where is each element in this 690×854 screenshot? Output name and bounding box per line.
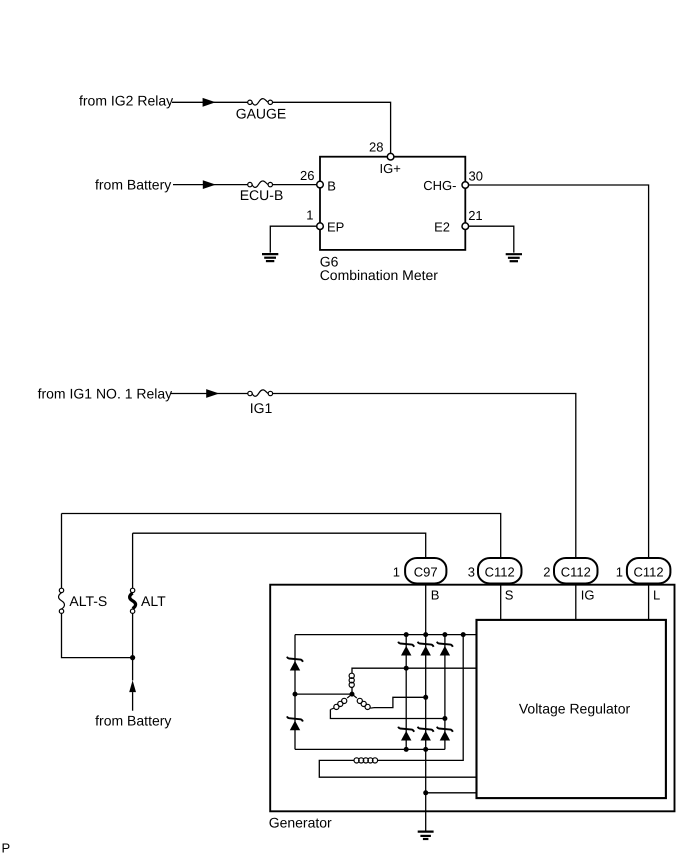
voltage regulator box U2 — [477, 620, 666, 798]
fuse ECU-B — [248, 181, 273, 187]
arrow on IG2 wire — [203, 98, 216, 107]
connector C97 — [405, 558, 446, 584]
pin 30 CHG- circle — [462, 182, 469, 189]
wire top lead of fuse ALT-S — [61, 514, 63, 589]
wire B into generator — [425, 584, 427, 635]
fusible link ALT — [130, 588, 136, 613]
svg-text:Generator: Generator — [269, 815, 332, 831]
diode D1 top row — [398, 642, 414, 656]
svg-text:from IG2 Relay: from IG2 Relay — [79, 93, 173, 109]
wire ALT to connector B C97 — [133, 533, 426, 558]
fuse ALT-S — [59, 588, 65, 613]
rotor field coil — [354, 758, 378, 763]
wire rectifier column 3 — [444, 635, 446, 750]
svg-text:S: S — [505, 587, 514, 602]
svg-text:B: B — [431, 587, 440, 602]
wire left rectifier column — [294, 635, 296, 750]
wire left column to stator center — [295, 693, 352, 695]
svg-text:2: 2 — [543, 564, 550, 579]
pin 26 B circle — [317, 181, 324, 188]
svg-text:21: 21 — [468, 208, 482, 223]
svg-text:GAUGE: GAUGE — [236, 106, 287, 122]
diode D3 top row — [437, 642, 453, 656]
diode D6 bottom row — [437, 727, 453, 741]
junction dot left column — [293, 692, 298, 697]
wire S into voltage regulator — [500, 584, 502, 620]
svg-text:30: 30 — [469, 168, 483, 183]
ground for EP — [262, 254, 278, 261]
junction dot ground line — [423, 790, 428, 795]
arrow on IG1 wire — [206, 389, 219, 398]
svg-text:26: 26 — [300, 168, 314, 183]
svg-text:L: L — [653, 587, 660, 602]
junction dot stator center — [350, 692, 355, 697]
svg-text:1: 1 — [306, 208, 313, 223]
svg-text:from IG1 NO. 1 Relay: from IG1 NO. 1 Relay — [38, 385, 173, 401]
wire GAUGE fuse to pin 28 — [273, 102, 391, 153]
pin 28 circle — [387, 153, 394, 160]
wire IG2 Relay to GAUGE fuse — [172, 101, 248, 103]
svg-text:CHG-: CHG- — [423, 178, 456, 193]
svg-text:IG: IG — [581, 587, 595, 602]
ground for E2 — [506, 254, 522, 261]
wire phase 3 to rectifier column 2 — [374, 697, 426, 707]
svg-text:C112: C112 — [561, 564, 591, 579]
generator box — [270, 585, 674, 812]
junction dot phase1 column1 — [404, 666, 409, 671]
svg-text:E2: E2 — [434, 219, 450, 234]
wire rectifier column 2 B — [425, 635, 427, 832]
wire regulator E to ground line — [426, 792, 477, 794]
svg-text:Voltage Regulator: Voltage Regulator — [519, 700, 631, 716]
junction dots top bus — [404, 632, 409, 637]
wire bottom lead ALT to junction — [132, 613, 134, 657]
svg-text:1: 1 — [393, 564, 400, 579]
svg-text:C97: C97 — [414, 564, 438, 579]
arrow on Battery wire — [203, 180, 216, 189]
diode D2 top row — [418, 642, 434, 656]
wire phase 2 to rectifier column 3 — [330, 710, 445, 719]
stator coil phase 3 lower-right — [352, 694, 374, 709]
svg-text:ALT-S: ALT-S — [69, 593, 107, 609]
wire below battery arrow — [132, 692, 134, 711]
wire phase 1 to regulator — [352, 668, 477, 673]
junction dots bottom bus — [404, 747, 409, 752]
wire rectifier column 1 — [405, 635, 407, 750]
diode D4 bottom row — [398, 727, 414, 741]
combination meter box U1 — [320, 157, 465, 250]
svg-text:ALT: ALT — [141, 593, 166, 609]
stator coil phase 2 lower-left — [330, 694, 352, 709]
wire EP to ground — [270, 226, 316, 252]
diode D7 left column top — [287, 657, 303, 671]
svg-text:28: 28 — [369, 139, 383, 154]
svg-text:IG1: IG1 — [250, 400, 273, 416]
connector C112 S — [478, 558, 522, 584]
fuse GAUGE — [248, 99, 273, 105]
wire bottom bus — [295, 748, 445, 750]
wire coil1 to stator center — [351, 687, 353, 694]
diode D5 bottom row — [418, 727, 434, 741]
wire IG1 Relay to IG1 fuse — [171, 393, 248, 395]
ground for generator — [418, 832, 434, 839]
wire Battery to ECU-B fuse — [173, 184, 248, 186]
wire top bus B+ — [295, 634, 477, 636]
svg-text:3: 3 — [468, 564, 475, 579]
wire field from top bus down — [378, 635, 464, 761]
wire IG1 fuse to connector IG C112 — [273, 394, 576, 559]
wire IG into voltage regulator — [575, 584, 577, 620]
connector C112 L — [627, 558, 671, 584]
svg-text:ECU-B: ECU-B — [240, 187, 284, 203]
wire ALT-S to connector S C112 — [62, 514, 501, 559]
junction dot phase3 column2 — [423, 695, 428, 700]
svg-text:Combination Meter: Combination Meter — [320, 267, 439, 283]
wire bottom lead ALT-S to junction — [62, 613, 133, 657]
pin 1 EP circle — [317, 223, 324, 230]
wire L into voltage regulator — [648, 584, 650, 620]
junction dot phase2 column3 — [442, 716, 447, 721]
pin 21 E2 circle — [462, 223, 469, 230]
wire E2 to ground — [469, 226, 514, 252]
wire rotor coil to regulator F — [319, 760, 476, 777]
svg-text:from Battery: from Battery — [95, 177, 171, 193]
arrow from Battery up — [129, 680, 136, 692]
junction dot battery node — [130, 655, 135, 660]
connector C112 IG — [554, 558, 598, 584]
wire top lead of fuse ALT — [132, 533, 134, 588]
wire CHG- to connector L C112 — [469, 185, 649, 558]
svg-text:C112: C112 — [634, 564, 664, 579]
wire junction to battery arrow — [132, 658, 134, 681]
svg-text:1: 1 — [616, 564, 623, 579]
svg-text:IG+: IG+ — [380, 161, 401, 176]
svg-text:C112: C112 — [485, 564, 515, 579]
fuse IG1 — [248, 390, 273, 396]
svg-text:B: B — [327, 178, 336, 193]
stator coil phase 1 vertical — [349, 673, 354, 687]
svg-text:EP: EP — [327, 219, 344, 234]
svg-text:P: P — [2, 841, 11, 854]
wire ECU-B fuse to pin 26 B — [273, 184, 317, 186]
svg-text:from Battery: from Battery — [95, 713, 171, 729]
diode D8 left column bottom — [287, 716, 303, 730]
